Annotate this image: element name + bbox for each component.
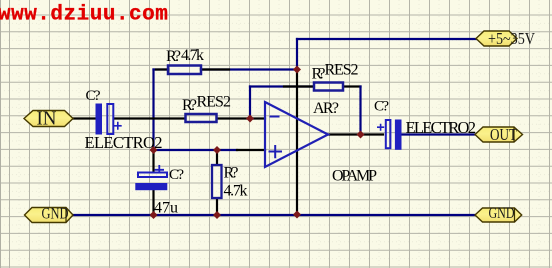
resistor R3 RES2 body (upper right): [314, 83, 343, 91]
junction at noninverting node left: [150, 146, 158, 154]
svg-text:RES2: RES2: [325, 62, 359, 79]
svg-text:4.7k: 4.7k: [224, 183, 248, 200]
wire R4 bottom pin: [216, 199, 218, 216]
wire R4 top pin: [216, 150, 218, 165]
capacitor C1 plus sign: [114, 122, 122, 130]
wire IN port to C1: [73, 117, 96, 119]
svg-text:GND: GND: [42, 206, 69, 223]
port IN: [24, 109, 73, 130]
svg-text:R?: R?: [166, 48, 181, 65]
svg-text:www.dziuu.com: www.dziuu.com: [0, 4, 168, 27]
op-amp U1 triangle: [265, 102, 328, 167]
port +5~35V: [476, 29, 535, 48]
svg-text:+5~35V: +5~35V: [488, 29, 535, 48]
port GND right: [475, 205, 522, 222]
wire upper feedback row y87 left segment: [250, 85, 313, 87]
wire node column vertical x154: [152, 70, 154, 151]
port GND left: [25, 206, 74, 223]
resistor R2 RES2 body (middle): [186, 114, 217, 122]
capacitor C3 ELECTRO2 positive plate: [386, 120, 391, 148]
svg-text:GND: GND: [489, 205, 515, 222]
wire noninverting input row y150: [154, 149, 238, 151]
svg-text:ELECTRO2: ELECTRO2: [406, 118, 477, 137]
svg-text:R?: R?: [224, 165, 239, 182]
junction at feedback/power node: [293, 66, 301, 74]
wire C1 to R2: [114, 117, 184, 119]
resistor R3 left pin: [284, 85, 313, 87]
svg-text:47u: 47u: [154, 200, 178, 217]
left window border: [0, 0, 1, 268]
wire output pin to C3: [328, 133, 383, 135]
capacitor C2 plus sign: [155, 165, 164, 173]
op-amp plus sign: [269, 145, 283, 158]
svg-text:OPAMP: OPAMP: [332, 168, 377, 185]
wire feedback row y69 left of R1: [154, 68, 169, 70]
wire power column through op-amp to ground: [296, 70, 298, 215]
port OUT: [475, 125, 523, 144]
svg-text:OUT: OUT: [490, 125, 517, 144]
svg-text:C?: C?: [374, 99, 389, 115]
resistor R1 left pin: [156, 68, 168, 70]
svg-text:RES2: RES2: [197, 94, 232, 111]
capacitor C2 47u negative plate: [135, 183, 167, 190]
junction ground C2: [150, 211, 158, 219]
capacitor C1 ELECTRO2 negative plate: [96, 104, 103, 135]
capacitor C1 ELECTRO2 positive plate: [107, 104, 113, 134]
wire ground rail: [73, 214, 475, 216]
junction ground R4: [213, 211, 221, 219]
wire C3 to OUT port: [402, 133, 477, 135]
svg-text:AR?: AR?: [313, 100, 339, 117]
wire op-amp noninverting pin: [237, 149, 265, 151]
svg-text:R?: R?: [312, 66, 326, 83]
resistor R1 right pin: [201, 68, 229, 70]
junction at output node: [357, 131, 365, 139]
op-amp minus sign: [270, 116, 280, 118]
svg-text:4.7k: 4.7k: [181, 47, 204, 64]
svg-text:C?: C?: [169, 167, 184, 183]
wire C2 bottom pin: [152, 190, 154, 215]
svg-text:IN: IN: [37, 109, 57, 130]
junction ground op-amp: [293, 211, 301, 219]
capacitor C2 47u positive plate: [138, 173, 167, 178]
wire R2 to inverting input: [217, 117, 265, 119]
junction at noninverting node right: [213, 146, 221, 154]
resistor R3 right pin: [344, 85, 361, 87]
wire vertical x250 (upper RES2 to inverting input): [249, 87, 251, 119]
svg-text:ELECTRO2: ELECTRO2: [85, 133, 163, 152]
wire vertical x359.5 (upper RES2 to output node): [359, 87, 361, 135]
wire +V rail from power column to +5~35V port: [297, 38, 477, 40]
resistor R1 4.7k body: [168, 66, 201, 75]
junction at inverting input node: [246, 115, 254, 123]
resistor R4 4.7k body (vertical): [212, 165, 222, 198]
wire power column top (rail to feedback node): [296, 39, 298, 70]
svg-text:R?: R?: [182, 97, 197, 114]
svg-text:C?: C?: [86, 88, 101, 104]
wire C2 top pin: [152, 150, 154, 172]
capacitor C3 ELECTRO2 plus sign: [377, 124, 384, 131]
wire feedback row y69 right of R1: [201, 68, 297, 70]
capacitor C3 ELECTRO2 negative plate: [395, 120, 402, 150]
